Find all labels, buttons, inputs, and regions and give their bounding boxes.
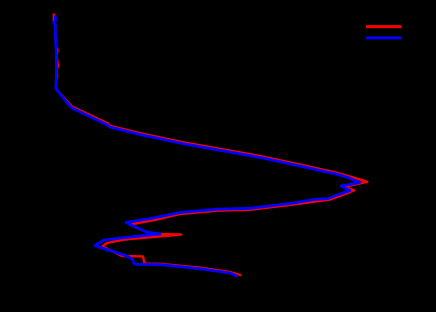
curve series 1 (red) (54, 14, 368, 276)
legend entry line (red) (366, 25, 402, 28)
curve series 2 (blue) (54, 16, 360, 277)
legend entry line (blue) (366, 36, 402, 39)
